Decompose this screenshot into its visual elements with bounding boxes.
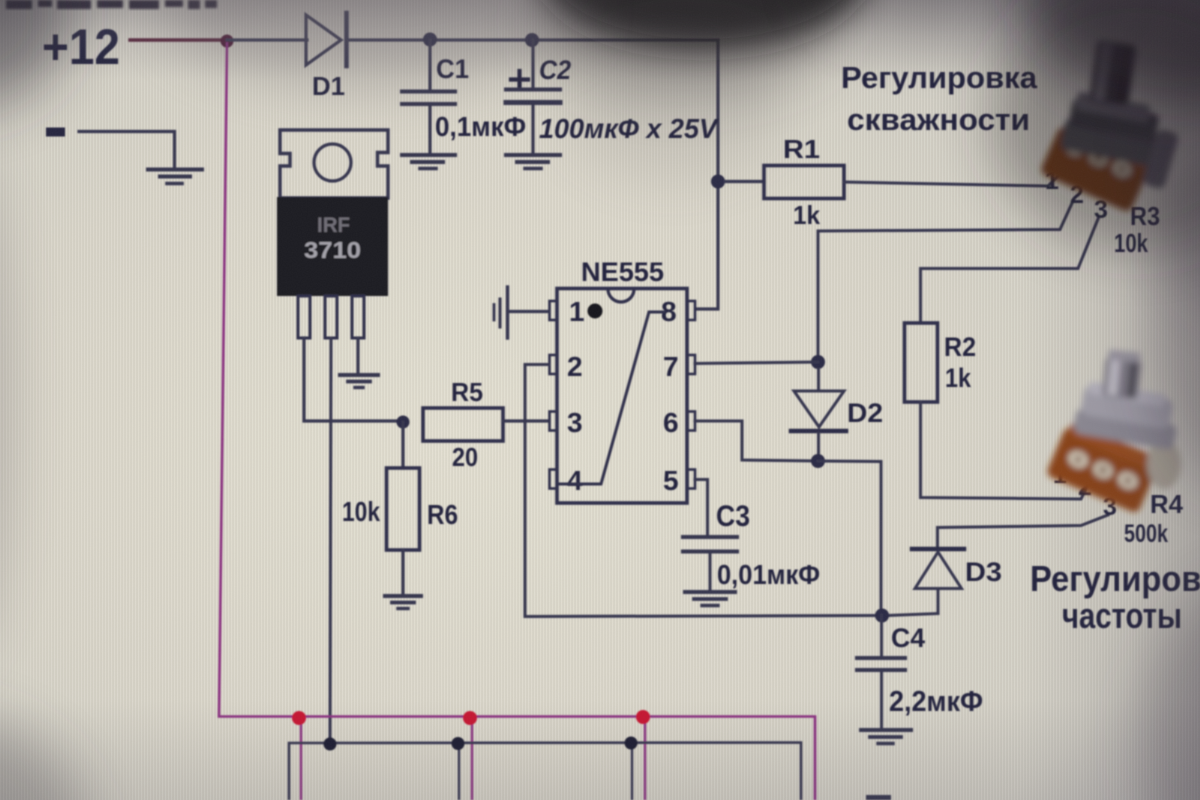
node black 2 [452, 737, 465, 750]
internal wire pin8 to pin4 [557, 312, 664, 484]
node junction +12/purple [221, 35, 234, 48]
node C4 [875, 609, 889, 623]
wire junction to D1 anode [227, 38, 307, 41]
resistor R2 [905, 323, 938, 402]
resistor R6 [401, 422, 404, 468]
wire R1 to R3 pin1 [844, 176, 1058, 186]
wire gate leg to R5/R6 node [304, 338, 398, 421]
transistor Q1 IRF3710 body [277, 197, 388, 296]
op-amp U1 NE555 body [557, 289, 687, 504]
ground C1 [402, 153, 455, 157]
wire dark drop 1 [458, 744, 460, 800]
partial element bottom edge [866, 795, 891, 800]
diode D2 [817, 369, 820, 391]
wire pin1 to chassis ground [509, 310, 549, 313]
wire purple rail from +12 node [219, 42, 815, 800]
Q1 legs [298, 296, 310, 338]
wire pin2 down to C4 node [525, 365, 882, 617]
wire drain leg down to output bus [330, 338, 331, 743]
diode D1 [306, 15, 341, 65]
node C2 tap [525, 33, 539, 47]
capacitor C2 (electrolytic) [517, 71, 521, 88]
transistor Q1 IRF3710 tab [280, 130, 388, 198]
wire source leg to ground [356, 338, 359, 373]
wire dark output bus [289, 743, 801, 800]
wire R3 pin3 to R2 top [921, 219, 1099, 323]
resistor R5 [423, 408, 503, 441]
wire pin6 to D2 node [695, 421, 818, 461]
resistor R1 [725, 180, 764, 183]
wire R4 pin3 to D3 [938, 515, 1109, 547]
node pin7/D2 top [811, 355, 825, 369]
ground C4 [861, 728, 911, 732]
wire pin5 to C3 [695, 480, 708, 536]
ground C2 [506, 153, 560, 157]
wire purple drop 3 [644, 717, 646, 800]
potentiometer R3 photo [1039, 40, 1179, 213]
pin1 marker dot [588, 304, 603, 319]
ground C3 [685, 590, 735, 594]
top cut-off title text [6, 0, 217, 9]
wire D1 cathode to corner [348, 38, 718, 41]
wire R3 pin2 to rail x=818 [818, 201, 1073, 362]
node D2 bottom [811, 454, 825, 468]
ground (input minus) [148, 168, 202, 172]
node red 1 [292, 711, 306, 725]
wire pin7 to node [695, 362, 818, 364]
bottom buses [219, 42, 891, 800]
node C1 tap [423, 33, 437, 47]
wire purple drop 2 [471, 718, 473, 800]
node gate/R5/R6 [397, 416, 410, 429]
wire D2 node to C4 rail [818, 461, 881, 616]
ground Q1 source [340, 373, 378, 377]
node black 1 [324, 738, 337, 751]
node red 2 [463, 711, 477, 725]
minus terminal [46, 128, 65, 137]
pin stubs left [550, 301, 558, 320]
capacitor C3 [683, 535, 737, 539]
wire R5 to pin3 [503, 419, 549, 422]
node red 3 [636, 710, 650, 724]
wire minus to ground [79, 132, 175, 169]
potentiometer R4 photo [1045, 349, 1181, 514]
wire vertical right rail down to pin 8 [696, 40, 718, 309]
wire R2 bottom to R4 pin2 [921, 402, 1087, 499]
diode D3 [912, 547, 964, 552]
chassis ground pin1 [506, 287, 509, 338]
wire dark drop 2 [631, 743, 633, 800]
node black 3 [625, 737, 638, 750]
wire +12 to junction (dark red segment) [130, 38, 227, 41]
pin stubs right [688, 301, 696, 320]
capacitor C4 [880, 615, 883, 656]
capacitor C1 [428, 40, 431, 89]
ground R6 [385, 594, 421, 598]
wire purple drop 1 [300, 718, 302, 800]
node R1 tap on rail [711, 175, 725, 189]
